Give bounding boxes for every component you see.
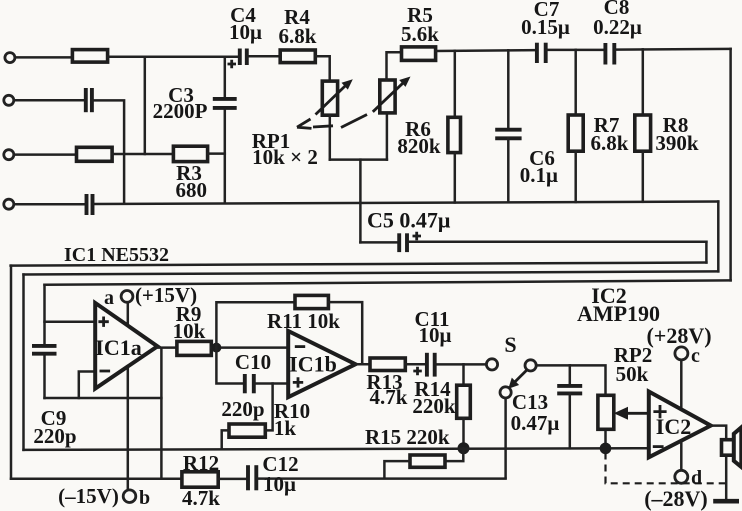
wire C9 lower lead: [43, 355, 46, 398]
capacitor C3: [213, 99, 237, 108]
power terminal d: [675, 470, 688, 483]
resistor R10: [229, 424, 265, 437]
wire C5 right riser: [705, 242, 708, 263]
wire R13 to C11: [405, 363, 425, 366]
resistor R14: [457, 385, 471, 418]
node R14 bottom junction: [458, 442, 470, 454]
node R9 output junction: [211, 343, 221, 353]
wire line L3 left segment: [11, 478, 182, 481]
wire IC1a noninverting input: [45, 320, 93, 323]
svg-text:IC2: IC2: [656, 414, 691, 439]
power terminal a: [121, 291, 133, 303]
wire C6 branch upper: [507, 50, 510, 130]
capacitor C9: [32, 346, 57, 354]
capacitor C6: [495, 130, 521, 139]
wire RP1a bottom lead: [329, 115, 332, 159]
wire RP2 branch: [604, 429, 607, 448]
power terminal b: [123, 490, 136, 503]
svg-text:R12: R12: [183, 451, 219, 475]
wire row3 R2 to R3: [112, 153, 173, 156]
wire C4 to R4: [248, 55, 280, 58]
resistor R3: [173, 146, 207, 161]
dashed gang link of RP1: [297, 115, 367, 129]
wire row2 cap to drop: [93, 100, 124, 203]
svg-text:C5 0.47μ: C5 0.47μ: [367, 208, 451, 233]
wire R3 to C3 branch: [208, 152, 225, 155]
wire R12 to C12: [218, 478, 246, 481]
resistor R15: [410, 455, 445, 467]
wire RP1 bottom bus: [330, 158, 387, 161]
svg-text:5.6k: 5.6k: [401, 22, 439, 46]
capacitor C12: [248, 465, 256, 490]
resistor R9: [177, 341, 211, 355]
node RP2 bottom junction: [600, 443, 612, 455]
wire bus right corner drop: [717, 202, 720, 272]
wire RP1 wiper drop: [359, 160, 362, 243]
svg-text:1k: 1k: [274, 416, 297, 440]
potentiometer RP1b: [373, 77, 411, 113]
wire R10 left lead: [222, 430, 229, 448]
resistor R1: [72, 50, 107, 63]
wire C3 branch vertical upper: [224, 57, 227, 97]
capacitor C10: [245, 374, 254, 393]
wire IC1b output to R13: [356, 363, 371, 366]
resistor R4: [280, 50, 315, 63]
svg-text:S: S: [504, 332, 516, 357]
wire line L3 right segment: [258, 477, 506, 480]
svg-text:a: a: [104, 287, 114, 309]
wire row1 terminal to R1: [17, 56, 73, 59]
potentiometer RP2: [598, 395, 649, 429]
svg-text:220p: 220p: [221, 397, 264, 421]
svg-text:(+28V): (+28V): [646, 323, 711, 348]
input terminal 4: [4, 199, 14, 209]
resistor R8: [635, 115, 651, 151]
wire IC1a output drop: [160, 348, 163, 479]
resistor R7: [568, 115, 583, 151]
svg-text:0.47μ: 0.47μ: [511, 411, 560, 435]
wire row3 terminal to R2: [15, 153, 76, 156]
svg-text:10k: 10k: [173, 319, 206, 343]
svg-text:IC1 NE5532: IC1 NE5532: [64, 244, 169, 266]
wire C13 lower lead: [569, 393, 572, 448]
svg-text:IC1a: IC1a: [95, 335, 141, 360]
capacitor C8: [605, 43, 614, 65]
wire power a-b vertical: [127, 303, 130, 490]
wire right edge drop to inner feedback line: [729, 49, 732, 281]
wire left riser outer: [10, 266, 13, 479]
svg-text:220p: 220p: [33, 424, 76, 448]
resistor R11: [295, 295, 328, 308]
ground: [713, 499, 739, 504]
op-amp IC2: [649, 392, 711, 458]
svg-text:2200P: 2200P: [153, 99, 208, 123]
wire R14 upper lead: [462, 364, 465, 385]
wire switch to RP2 corner: [536, 365, 605, 395]
svg-text:C10: C10: [235, 350, 271, 374]
svg-text:390k: 390k: [655, 131, 699, 155]
svg-text:R11 10k: R11 10k: [267, 309, 340, 333]
svg-text:6.8k: 6.8k: [591, 131, 629, 155]
svg-text:10k × 2: 10k × 2: [252, 145, 318, 169]
wire long feedback line L1: [11, 263, 707, 266]
wire row2 terminal to cap: [15, 99, 84, 102]
wire row1 R1 to C4: [108, 56, 239, 59]
svg-text:c: c: [691, 345, 700, 367]
svg-text:6.8k: 6.8k: [279, 24, 317, 48]
potentiometer RP1a: [316, 79, 353, 115]
wire R14 lower lead: [462, 418, 465, 448]
svg-text:10μ: 10μ: [419, 323, 452, 347]
svg-text:0.22μ: 0.22μ: [593, 15, 642, 39]
wire R15 right lead: [445, 448, 463, 461]
wire d terminal drop: [680, 441, 683, 470]
input terminal 2: [4, 95, 14, 105]
wire switch pole drop: [504, 398, 507, 477]
wire R5 to C7: [436, 49, 536, 52]
wire row4 terminal to cap: [15, 203, 85, 206]
svg-text:220k: 220k: [412, 394, 456, 418]
wire R7 branch lower: [574, 151, 577, 202]
wire C7 to C8: [547, 49, 605, 52]
svg-text:4.7k: 4.7k: [370, 385, 408, 409]
switch S: [486, 359, 536, 398]
wire R8 branch lower: [642, 151, 645, 202]
svg-text:820k: 820k: [397, 134, 441, 158]
power terminal c: [675, 347, 688, 360]
resistor R13: [370, 358, 405, 371]
wire C9 branch vertical upper: [43, 285, 46, 344]
wire C6 branch lower: [507, 138, 510, 202]
op-amp IC1a: [95, 303, 157, 389]
wire C8 to right corner: [615, 48, 730, 51]
svg-text:(–15V): (–15V): [58, 484, 119, 508]
wire C11 to switch S: [436, 363, 487, 366]
svg-text:50k: 50k: [616, 362, 649, 386]
wire C10 to IC1b noninverting input: [255, 382, 288, 385]
capacitor C13: [557, 386, 582, 394]
wire R11 to IC1b output: [328, 302, 362, 364]
wire R6 branch lower: [454, 153, 457, 203]
svg-text:R15 220k: R15 220k: [365, 425, 450, 449]
capacitor C4: [228, 49, 247, 69]
svg-text:IC1b: IC1b: [289, 352, 337, 377]
wire c terminal drop: [680, 360, 683, 410]
capacitor C5: [399, 232, 421, 252]
dashed negative supply link: [606, 453, 727, 484]
svg-text:10μ: 10μ: [229, 20, 262, 44]
wire row1 drop to row3: [144, 57, 147, 154]
speaker: [722, 427, 742, 467]
svg-text:0.15μ: 0.15μ: [521, 15, 570, 39]
wire RP1b top to R5: [387, 52, 402, 80]
input terminal 1: [5, 53, 15, 63]
resistor R12: [182, 472, 218, 487]
capacitor row2: [86, 88, 92, 112]
svg-text:10μ: 10μ: [263, 472, 296, 496]
wire IC2 output to speaker: [711, 426, 726, 499]
wire RP1b bottom lead: [386, 113, 389, 160]
wire feedback link L4: [45, 397, 162, 400]
capacitor C7: [537, 43, 546, 63]
wire IC1a inverting input elbow: [79, 372, 93, 399]
svg-text:4.7k: 4.7k: [182, 486, 220, 510]
wire row4 bus: [94, 202, 719, 205]
wire C5 line left: [360, 241, 397, 244]
wire R15 left lead: [384, 461, 410, 477]
wire R10 stub: [265, 384, 272, 431]
wire left riser middle: [22, 275, 25, 450]
capacitor C11: [413, 353, 434, 377]
wire middle feedback line: [24, 271, 719, 274]
wire R4 to RP1a: [315, 56, 329, 81]
wire C3 branch vertical lower: [224, 110, 227, 203]
wire R9 to IC1b inverting input: [211, 346, 288, 349]
svg-text:0.1μ: 0.1μ: [520, 163, 558, 187]
svg-text:680: 680: [176, 178, 208, 202]
wire inner feedback line to C9 branch: [45, 280, 731, 284]
wire node up to R11: [216, 302, 295, 347]
resistor R5: [402, 47, 436, 61]
svg-text:b: b: [139, 487, 150, 509]
wire bus L2: [24, 448, 649, 450]
resistor R6: [448, 117, 461, 152]
wire R8 branch upper: [642, 49, 645, 115]
capacitor row4: [87, 194, 93, 215]
op-amp IC1b: [288, 331, 355, 397]
wire IC1a output to R9: [158, 346, 177, 349]
wire R6 branch upper: [454, 51, 457, 118]
input terminal 3: [4, 150, 14, 160]
svg-text:(–28V): (–28V): [644, 486, 708, 511]
wire node down to C10: [216, 348, 243, 384]
wire C13 upper lead: [569, 365, 572, 384]
wire R7 branch upper: [574, 50, 577, 115]
resistor R2: [77, 147, 113, 161]
wire C5 line right: [408, 241, 706, 244]
